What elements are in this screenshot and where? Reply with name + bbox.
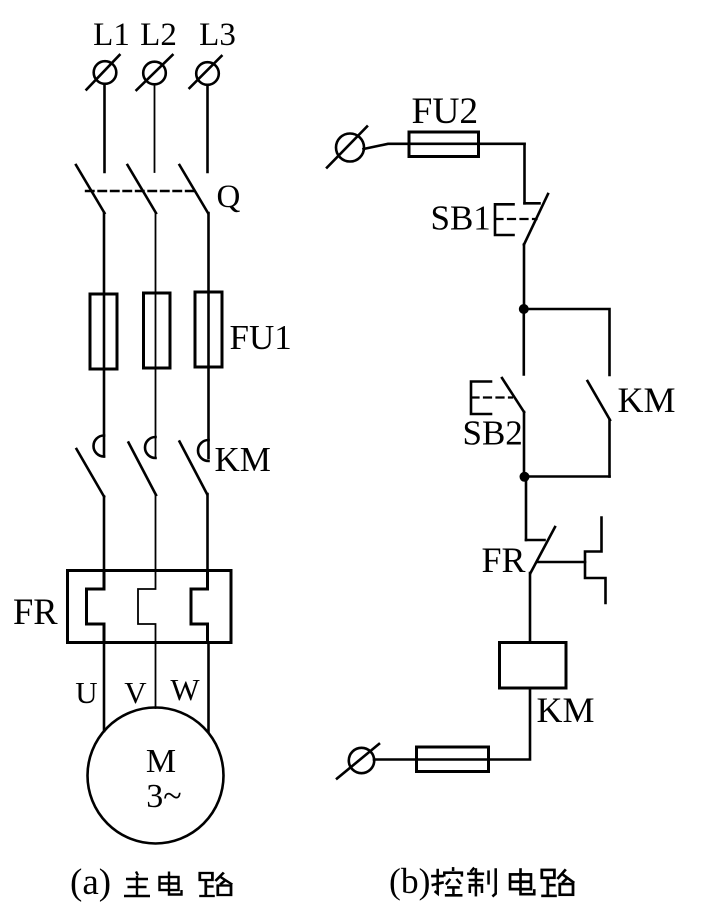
wire node A down to SB2 — [522, 309, 525, 375]
svg-text:L1: L1 — [93, 17, 130, 53]
fuse FU2 — [409, 132, 479, 157]
SB1 fixed contact tick — [525, 202, 540, 205]
SB1 button actuator — [495, 204, 514, 235]
terminal L2 — [137, 55, 173, 90]
KM coil box — [500, 643, 567, 689]
wire FR to KM coil — [529, 573, 532, 643]
FR thermal hook — [585, 518, 606, 604]
wire FU1 through to KM pole 1 — [103, 294, 106, 457]
fuse FU1 pole 1 — [90, 294, 117, 369]
SB2 blade — [502, 378, 524, 412]
switch Q pole 2 blade — [128, 165, 157, 213]
switch Q pole 3 blade — [180, 165, 209, 213]
FR heater element pole 1 — [87, 571, 105, 643]
caption glyph 制 — [467, 868, 496, 897]
motor M circle — [88, 708, 224, 844]
caption glyph 路 — [199, 873, 232, 897]
svg-text:FR: FR — [482, 540, 526, 580]
contactor KM pole 1 arc — [94, 436, 105, 457]
caption glyph 主 — [124, 872, 150, 897]
SB2 button actuator — [471, 382, 491, 415]
caption glyph 电2 — [510, 868, 534, 894]
svg-text:FU2: FU2 — [412, 91, 479, 132]
svg-text:KM: KM — [537, 690, 595, 730]
wire Q to FU1 pole 2 — [155, 213, 157, 293]
svg-text:L3: L3 — [199, 17, 236, 53]
wire through FU2 to rail — [409, 143, 525, 146]
caption glyph 控 — [431, 867, 462, 895]
wire FU1 through to KM pole 2 — [155, 293, 157, 457]
fuse bottom — [417, 747, 489, 772]
contactor KM pole 2 arc — [145, 437, 156, 458]
fuse FU1 pole 3 — [195, 292, 222, 367]
wire SB2 to node B — [523, 412, 526, 477]
wire Q to FU1 pole 1 — [103, 213, 106, 294]
wire L3 to Q — [206, 85, 209, 172]
wire FU1 through to KM pole 3 — [207, 292, 210, 458]
svg-text:V: V — [124, 675, 147, 710]
svg-text:U: U — [75, 675, 97, 710]
terminal L3 — [190, 56, 222, 88]
terminal L1 — [87, 55, 120, 90]
wire KM to FR pole 1 — [103, 497, 106, 571]
node B junction dot — [520, 472, 530, 482]
FR contact fixed tick — [526, 539, 545, 542]
svg-text:3~: 3~ — [146, 778, 181, 815]
wire KM to FR pole 3 — [206, 494, 209, 571]
wire FR to motor V — [155, 643, 157, 709]
fuse FU1 pole 2 — [144, 293, 171, 368]
node A junction dot — [519, 304, 529, 314]
wire FR to motor U — [103, 643, 106, 732]
contactor KM pole 3 arc — [198, 440, 209, 461]
svg-text:(b): (b) — [389, 861, 430, 901]
wire SB1 to node A — [523, 245, 526, 310]
wire FR to motor W — [207, 643, 210, 733]
wire L1 to Q — [103, 84, 106, 172]
thermal relay FR box — [68, 571, 232, 643]
FR contact actuator rod — [538, 561, 586, 564]
FR heater element pole 3 — [191, 571, 208, 643]
wire terminal to FU2 — [364, 144, 410, 149]
contactor KM pole 1 blade — [77, 449, 105, 497]
caption glyph 路2 — [541, 869, 574, 896]
wire L2 to Q — [154, 85, 156, 173]
branch bottom wire — [524, 475, 610, 478]
terminal bottom (control) — [337, 744, 379, 779]
FR heater element pole 2 — [138, 571, 156, 643]
contactor KM pole 3 blade — [180, 442, 208, 495]
svg-text:Q: Q — [217, 179, 241, 215]
wire KM coil to bottom wire — [374, 688, 530, 760]
branch top wire — [524, 309, 610, 375]
SB1 blade — [524, 194, 548, 245]
svg-text:M: M — [146, 743, 176, 780]
svg-text:SB1: SB1 — [431, 199, 491, 238]
svg-text:KM: KM — [618, 380, 676, 420]
SB1 actuator rod dashed — [496, 218, 537, 220]
KM aux contact blade — [588, 381, 611, 420]
switch Q pole 1 blade — [76, 165, 105, 213]
svg-text:FU1: FU1 — [230, 318, 292, 357]
caption glyph 电 — [160, 872, 182, 895]
SB2 actuator rod dashed — [472, 396, 513, 398]
svg-text:W: W — [170, 672, 200, 707]
wire node B down to FR contact — [525, 477, 528, 541]
FR contact blade — [531, 527, 556, 573]
contactor KM pole 2 blade — [129, 443, 157, 496]
wire KM to FR pole 2 — [155, 495, 157, 571]
switch Q linkage dashed line — [86, 190, 196, 192]
svg-text:SB2: SB2 — [463, 414, 523, 453]
wire KM aux to bottom branch — [608, 420, 611, 477]
svg-text:KM: KM — [215, 440, 271, 479]
wire rail down to SB1 — [523, 144, 526, 204]
svg-text:L2: L2 — [140, 17, 177, 53]
svg-text:(a): (a) — [70, 862, 111, 903]
terminal top (control) — [327, 127, 367, 168]
wire Q to FU1 pole 3 — [207, 213, 210, 292]
svg-text:FR: FR — [13, 591, 58, 632]
